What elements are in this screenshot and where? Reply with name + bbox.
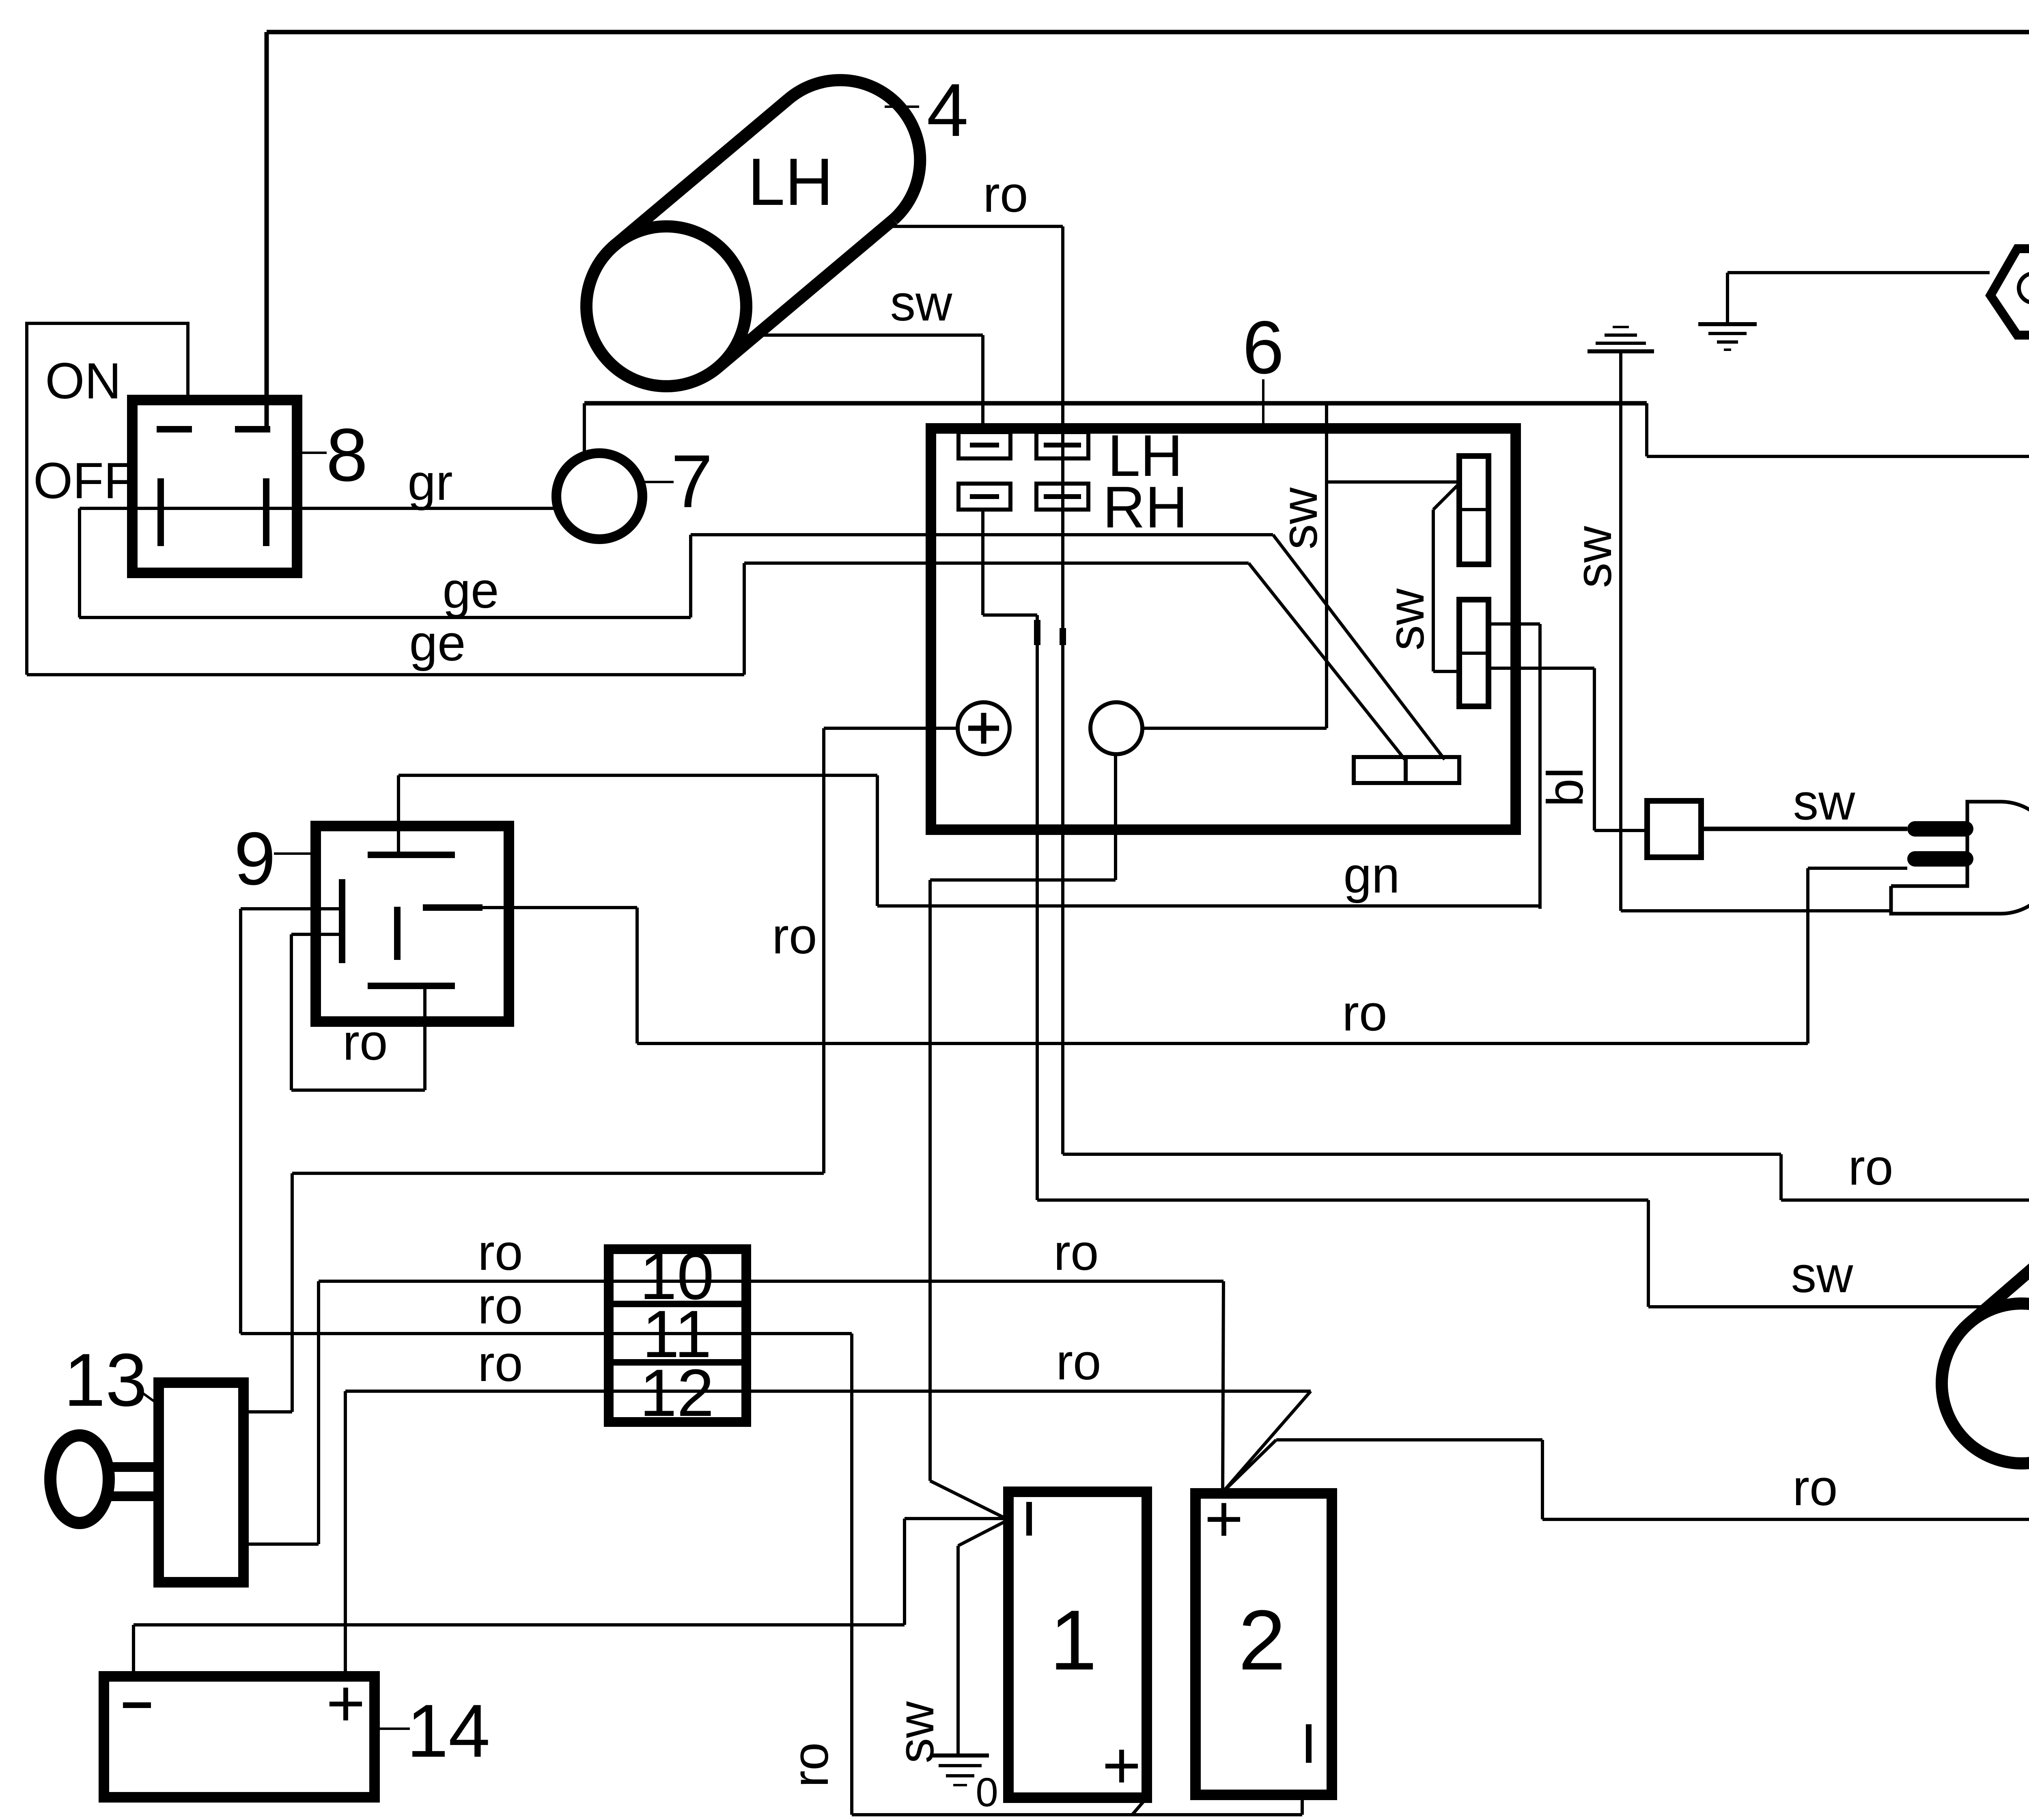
fuse rect A divider <box>1459 508 1488 511</box>
relay left pin bar <box>339 879 345 963</box>
wire ge-B bottom <box>27 673 744 676</box>
wire connector 11 line <box>241 1332 852 1335</box>
wire RH ro to horn <box>1781 1198 2029 1202</box>
wire switch arm down <box>1432 510 1435 671</box>
relay 9 box <box>316 826 509 1022</box>
wire ge-B into flasher box <box>744 561 1249 565</box>
minus sign battery 14 <box>123 1702 151 1708</box>
switch S8 box <box>132 400 297 573</box>
wire relay right pin out <box>482 906 637 909</box>
svg-text:bl: bl <box>1537 767 1594 807</box>
wire RH sw horizontal <box>1037 1198 1648 1202</box>
indicator + circle in flasher <box>958 702 1010 754</box>
horn LH cylinder end circle <box>586 226 746 386</box>
wire horn button lower out <box>243 1542 319 1546</box>
wire switch arm to fuse B <box>1433 670 1459 673</box>
wire B line drop <box>1645 403 1648 456</box>
wire tab ground drop <box>1726 273 1729 323</box>
terminal LH+ rect <box>1036 432 1088 458</box>
wire tab to ground <box>1727 271 1990 274</box>
svg-text:ro: ro <box>478 1278 523 1334</box>
fuse rect B divider <box>1459 652 1488 655</box>
horn button knob <box>50 1435 109 1523</box>
leader line from 6 to box <box>1262 379 1264 428</box>
ground 0 bar 3 <box>946 1774 974 1777</box>
svg-text:sw: sw <box>890 275 953 331</box>
plus sign in RH+ rect <box>1044 494 1081 499</box>
svg-text:0: 0 <box>976 1770 998 1815</box>
wire ro drop to flasher LH+ <box>1061 226 1064 432</box>
pin bottom-right of switch 8 <box>263 478 269 546</box>
wire gn riser <box>1538 624 1542 909</box>
wire into horn button upper <box>243 1410 292 1413</box>
wire sw from ground down <box>1619 351 1622 911</box>
diagonal contact 2 in flasher <box>1249 563 1405 759</box>
wire switch 8 top-right pin to top border <box>265 32 268 426</box>
connector divider 11/12 <box>609 1359 746 1366</box>
pin top-left of switch 8 <box>157 426 192 432</box>
wire bl drop <box>1593 668 1596 830</box>
contact pair rect in flasher <box>1354 757 1459 783</box>
svg-text:ro: ro <box>1342 985 1387 1041</box>
battery 1 box <box>1008 1492 1147 1798</box>
relay middle pin bar <box>394 907 401 960</box>
terminal RH+ rect <box>1036 484 1088 510</box>
wire battery 14 minus riser <box>132 1625 135 1676</box>
wire ge-A horizontal <box>79 616 691 619</box>
svg-text:ro: ro <box>478 1336 523 1392</box>
horn button stem upper <box>106 1462 159 1472</box>
leader line to 4 <box>885 105 919 108</box>
wire ro from LH horn <box>883 225 1063 228</box>
wire RH sw to horn <box>1648 1305 1999 1308</box>
svg-text:ro: ro <box>1792 1460 1837 1516</box>
fuse rect B <box>1459 600 1488 706</box>
svg-text:8: 8 <box>326 413 368 497</box>
wire gr from switch 8 to horn button lamp 7 <box>80 507 557 510</box>
svg-text:+: + <box>1102 1728 1141 1803</box>
svg-text:7: 7 <box>671 440 713 523</box>
ground bars at tab <box>1698 322 1757 326</box>
diagonal contact 1 in flasher <box>1273 535 1445 759</box>
terminal LH- rect <box>958 432 1010 458</box>
wire bl to connector square <box>1594 829 1647 832</box>
leader line to 9 <box>274 852 314 855</box>
svg-text:9: 9 <box>234 817 276 901</box>
wire sw from LH horn <box>750 333 983 337</box>
leader line to 8 <box>298 452 327 454</box>
wire connector 12 line <box>345 1390 1311 1393</box>
svg-text:LH: LH <box>748 144 834 219</box>
horn LH cylinder bottom edge <box>719 219 894 366</box>
plus sign vertical in + circle <box>981 713 986 744</box>
pin top-right of switch 8 <box>235 426 270 432</box>
wire RH ro step <box>1779 1154 1783 1200</box>
wire sw column in flasher <box>1325 403 1328 728</box>
wire lamp pin 2 horizontal <box>1808 867 1907 870</box>
svg-text:2: 2 <box>1239 1592 1286 1688</box>
wire thin rect around ON/OFF switch <box>27 323 188 675</box>
wire connector 10 drop to battery 2 + <box>1223 1281 1223 1492</box>
pilot lamp body <box>1891 802 2029 914</box>
wire top border <box>267 30 2029 34</box>
svg-text:14: 14 <box>407 1689 490 1773</box>
wire bottom ro long <box>1542 1518 2029 1521</box>
wire drop to bottom ro <box>1541 1440 1544 1519</box>
wire battery 14 minus horizontal <box>134 1623 905 1626</box>
svg-text:sw: sw <box>1793 774 1856 830</box>
wire sw to fuse A <box>1327 480 1459 484</box>
wire + circle to ro feed <box>824 727 958 730</box>
svg-text:ge: ge <box>442 562 499 619</box>
wire gn circle drop <box>928 880 932 1481</box>
svg-text:sw: sw <box>1791 1247 1854 1303</box>
svg-text:4: 4 <box>927 69 969 152</box>
svg-text:gr: gr <box>407 454 452 511</box>
pilot lamp pin 2 <box>1907 851 1973 867</box>
contact pair divider <box>1404 757 1408 783</box>
horn RH cylinder end circle <box>1942 1304 2029 1463</box>
minus sign in RH- rect <box>970 494 999 499</box>
wire horn button lower riser <box>317 1281 320 1544</box>
wire RH- drop <box>981 510 984 615</box>
plus sign in LH+ rect <box>1044 443 1081 447</box>
connector divider 10/11 <box>609 1301 746 1307</box>
wire relay loop bottom <box>291 1089 425 1092</box>
pilot circle in flasher <box>1090 702 1142 754</box>
battery 14 box <box>104 1676 375 1797</box>
wire sw to lamp bottom <box>1621 909 1891 912</box>
wire pilot circle down <box>1114 754 1117 880</box>
flasher unit 6 box <box>931 428 1516 830</box>
wire relay right drop <box>635 908 639 1043</box>
contact mark on LH+ column <box>1060 628 1066 645</box>
svg-text:ro: ro <box>478 1224 523 1281</box>
leader line from 13 <box>140 1391 159 1405</box>
svg-text:OFF: OFF <box>33 453 135 509</box>
wire sw from square to lamp pin 1 <box>1701 827 1907 831</box>
wire top border left drop to switch 8 <box>265 32 269 431</box>
contact mark on RH- column <box>1034 620 1040 645</box>
svg-text:ro: ro <box>983 166 1028 223</box>
relay bottom pin bar <box>368 983 455 989</box>
wire ge-A riser <box>689 535 692 617</box>
wire RH- jog <box>983 613 1037 617</box>
minus sign in LH- rect <box>970 443 999 447</box>
tab on switch 3 <box>1990 249 2029 335</box>
wire sw diagonal from battery 1 <box>958 1520 1008 1546</box>
svg-text:RH: RH <box>1103 474 1187 540</box>
ground 0 bar 2 <box>939 1764 982 1767</box>
terminal RH- rect <box>958 484 1010 510</box>
svg-text:6: 6 <box>1243 306 1284 389</box>
wire fuse B upper to gn riser <box>1488 622 1540 626</box>
wire gn diagonal to battery 1 minus <box>930 1481 1008 1519</box>
lamp 7 circle <box>556 453 642 539</box>
plus sign in + circle <box>968 726 999 731</box>
horn RH cylinder top edge <box>1969 1164 2029 1323</box>
pin bottom-left of switch 8 <box>157 478 164 546</box>
svg-text:+: + <box>326 1666 365 1740</box>
svg-text:ro: ro <box>782 1742 839 1787</box>
wire battery 14 minus riser right <box>903 1519 906 1625</box>
wire relay bottom pin down <box>423 986 426 1090</box>
svg-text:ro: ro <box>1056 1334 1101 1390</box>
minus bar battery 2 <box>1306 1724 1312 1763</box>
wire lamp pin 2 riser <box>1806 868 1809 1043</box>
ground bars inverted <box>1613 326 1629 328</box>
wire relay top pin up <box>397 775 400 855</box>
leader line to 14 <box>375 1727 410 1730</box>
wire sw drop to flasher LH- <box>981 335 984 432</box>
wire RH- column down <box>1036 615 1039 1200</box>
wire battery 2 plus diagonal up right <box>1223 1440 1276 1492</box>
pilot lamp pin 1 <box>1907 821 1973 837</box>
fuse rect A <box>1459 456 1488 564</box>
svg-text:ro: ro <box>342 1014 388 1071</box>
wire ge-A down from gr <box>78 508 81 617</box>
wire connector 10 line <box>319 1280 1223 1283</box>
ground 0 bar 1 <box>931 1753 989 1758</box>
svg-text:sw: sw <box>1378 588 1435 651</box>
wire ge-A into flasher box <box>691 533 1273 536</box>
wire relay left pin out <box>241 907 342 910</box>
wire battery 2 minus riser <box>1301 1795 1304 1815</box>
horn LH cylinder cap arc <box>788 80 920 219</box>
wire B line bottom <box>1647 455 2029 458</box>
wire LH+ column through flasher <box>1061 432 1064 1154</box>
battery 2 box <box>1195 1493 1332 1795</box>
wire RH ro horizontal upper <box>1063 1153 1781 1156</box>
relay right pin bar <box>423 904 482 911</box>
wire ge-B riser <box>743 563 746 675</box>
svg-text:ro: ro <box>1848 1139 1893 1196</box>
wire relay left pin down to connector 11 <box>239 909 242 1334</box>
wire gn drop <box>876 775 879 906</box>
svg-text:sw: sw <box>1566 526 1622 588</box>
wire relay loop to left pin <box>291 933 342 936</box>
relay top pin bar <box>368 852 455 858</box>
svg-text:gn: gn <box>1343 847 1400 904</box>
minus bar battery 1 <box>1026 1502 1032 1536</box>
wire gn circle horizontal <box>930 878 1116 882</box>
wire battery 2 plus horizontal <box>1276 1438 1542 1441</box>
svg-text:ro: ro <box>772 908 817 964</box>
connector block outer <box>609 1249 746 1422</box>
tab hole circle <box>2019 273 2029 303</box>
wire gn horizontal <box>877 904 1540 908</box>
wire battery bottom link <box>852 1813 1302 1816</box>
wire ro drop to horn button 13 <box>291 1173 294 1412</box>
switch arm diagonal in flasher <box>1433 484 1459 510</box>
horn LH cylinder top edge <box>614 99 788 246</box>
wire battery 1 plus diagonal <box>1132 1798 1147 1815</box>
wire connector 12 diagonal to battery 2 + <box>1223 1391 1311 1492</box>
wire relay loop riser <box>290 934 293 1090</box>
wire long horizontal to ignition switch B line <box>584 401 1647 406</box>
svg-text:1: 1 <box>1050 1592 1097 1688</box>
wire relay to lamp pin 2 horizontal <box>637 1042 1808 1045</box>
svg-text:13: 13 <box>64 1338 147 1422</box>
leader line to 7 <box>644 481 674 483</box>
connector square <box>1647 801 1701 857</box>
horn button 13 body <box>159 1383 243 1582</box>
horn button stem lower <box>106 1491 159 1501</box>
wire ro to horn button <box>292 1172 824 1175</box>
wire bl from fuse B lower <box>1488 667 1594 670</box>
ground 0 bar 4 <box>953 1784 967 1786</box>
svg-text:sw: sw <box>1271 487 1328 550</box>
svg-text:ON: ON <box>45 353 121 409</box>
wire battery 14 minus to battery 1 minus <box>905 1517 1008 1520</box>
wire RH sw drop <box>1647 1200 1650 1307</box>
wire ro vertical from + circle <box>822 728 825 1173</box>
wire lamp 7 up <box>583 403 586 453</box>
wire pilot circle right <box>1142 727 1327 730</box>
wire relay coil to gn <box>398 774 877 777</box>
svg-text:ro: ro <box>1053 1224 1099 1281</box>
wire connector 12 drop to battery 14 + <box>344 1391 347 1676</box>
svg-text:ge: ge <box>409 615 465 671</box>
wire sw to ground <box>956 1546 960 1755</box>
wire connector 11 drop <box>850 1334 853 1815</box>
